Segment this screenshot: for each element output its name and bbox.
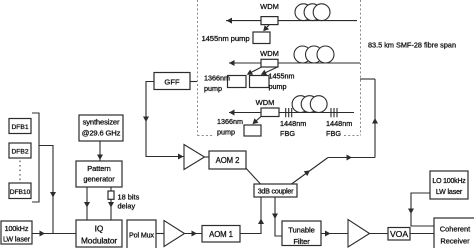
svg-text:Pol Mux: Pol Mux: [129, 231, 154, 239]
svg-text:GFF: GFF: [164, 78, 180, 87]
svg-text:pump: pump: [269, 82, 287, 91]
svg-text:FBG: FBG: [326, 129, 341, 138]
svg-text:generator: generator: [83, 175, 115, 184]
svg-text:Filter: Filter: [293, 237, 310, 246]
svg-text:WDM: WDM: [260, 2, 279, 11]
svg-text:pump: pump: [204, 84, 222, 93]
svg-text:1366nm: 1366nm: [204, 74, 230, 83]
svg-text:1455nm: 1455nm: [269, 72, 295, 81]
svg-text:@29.6 GHz: @29.6 GHz: [82, 128, 121, 137]
svg-text:LW laser: LW laser: [3, 235, 31, 244]
svg-text:FBG: FBG: [280, 129, 295, 138]
svg-text:Tunable: Tunable: [288, 226, 314, 235]
svg-text:IQ: IQ: [95, 224, 104, 234]
svg-text:DFB10: DFB10: [10, 189, 31, 196]
svg-text:VOA: VOA: [390, 229, 408, 239]
svg-text:83.5 km SMF-28 fibre span: 83.5 km SMF-28 fibre span: [368, 41, 456, 50]
svg-text:100kHz: 100kHz: [5, 224, 29, 233]
svg-text:1455nm pump: 1455nm pump: [201, 34, 249, 43]
svg-text:3dB coupler: 3dB coupler: [258, 187, 294, 196]
svg-text:LO 100kHz: LO 100kHz: [432, 178, 466, 185]
svg-text:WDM: WDM: [256, 98, 275, 107]
svg-text:DFB1: DFB1: [11, 124, 28, 131]
svg-text:1366nm: 1366nm: [217, 117, 243, 126]
svg-text:1448nm: 1448nm: [280, 119, 306, 128]
svg-text:delay: delay: [118, 201, 136, 210]
svg-text:Modulator: Modulator: [81, 236, 117, 246]
svg-text:Coherent: Coherent: [440, 225, 470, 234]
svg-text:AOM 2: AOM 2: [216, 156, 240, 165]
svg-text:WDM: WDM: [260, 49, 279, 58]
svg-text:synthesizer: synthesizer: [83, 118, 120, 127]
svg-text:Receiver: Receiver: [440, 237, 470, 246]
svg-text:18 bits: 18 bits: [118, 193, 140, 202]
svg-text:LW laser: LW laser: [436, 189, 463, 196]
svg-text:1448nm: 1448nm: [326, 119, 352, 128]
svg-text:DFB2: DFB2: [11, 149, 28, 156]
svg-text:pump: pump: [217, 128, 235, 137]
svg-text:AOM 1: AOM 1: [209, 230, 233, 239]
svg-text:Pattern: Pattern: [87, 164, 110, 173]
